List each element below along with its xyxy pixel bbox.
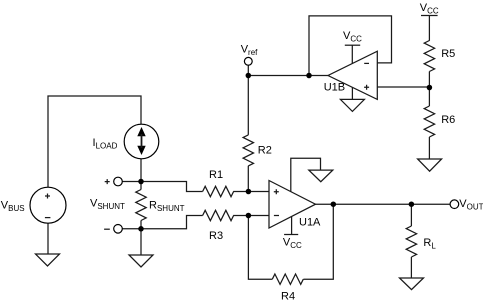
svg-text:R4: R4 <box>281 291 295 301</box>
svg-text:U1A: U1A <box>299 217 321 229</box>
svg-text:R3: R3 <box>209 230 223 242</box>
svg-text:U1B: U1B <box>324 82 345 94</box>
svg-text:R1: R1 <box>209 169 223 181</box>
svg-text:R6: R6 <box>441 114 455 126</box>
svg-text:R2: R2 <box>258 144 272 156</box>
svg-text:R5: R5 <box>441 48 455 60</box>
